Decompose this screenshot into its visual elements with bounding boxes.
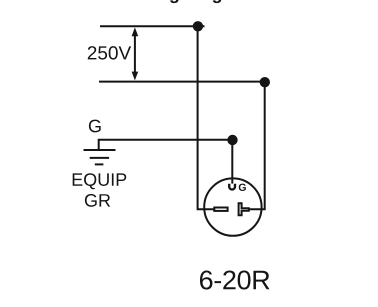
ground symbol (earth) (84, 150, 116, 164)
dimension arrow 250V (132, 27, 139, 80)
label 6-20R (200, 270, 270, 289)
wire L2 second hot line (99, 81, 266, 83)
wire ground wire with stub (99, 140, 233, 150)
label GR (85, 194, 110, 207)
node N1 junction dot (193, 21, 203, 31)
wire V2 from N2 down to right slot (249, 82, 265, 209)
node N3 junction dot (227, 135, 237, 145)
label EQUIP (73, 173, 127, 189)
receptacle outline (6-20R body) (204, 178, 261, 235)
left slot (214, 208, 227, 211)
node N2 junction dot (260, 77, 270, 87)
right T slot (239, 203, 249, 215)
title "Wiring Diagram" (cropped at top edge) (125, 0, 254, 3)
wire V1 from N1 down to left slot (198, 26, 214, 209)
wire L1 top hot line (100, 25, 205, 27)
ground slot (U shape) (229, 184, 235, 190)
wire V3 ground down to G slot (231, 140, 233, 184)
label G (ground wire) (89, 120, 101, 133)
label 250V (88, 46, 131, 59)
label G (slot) (239, 184, 246, 191)
